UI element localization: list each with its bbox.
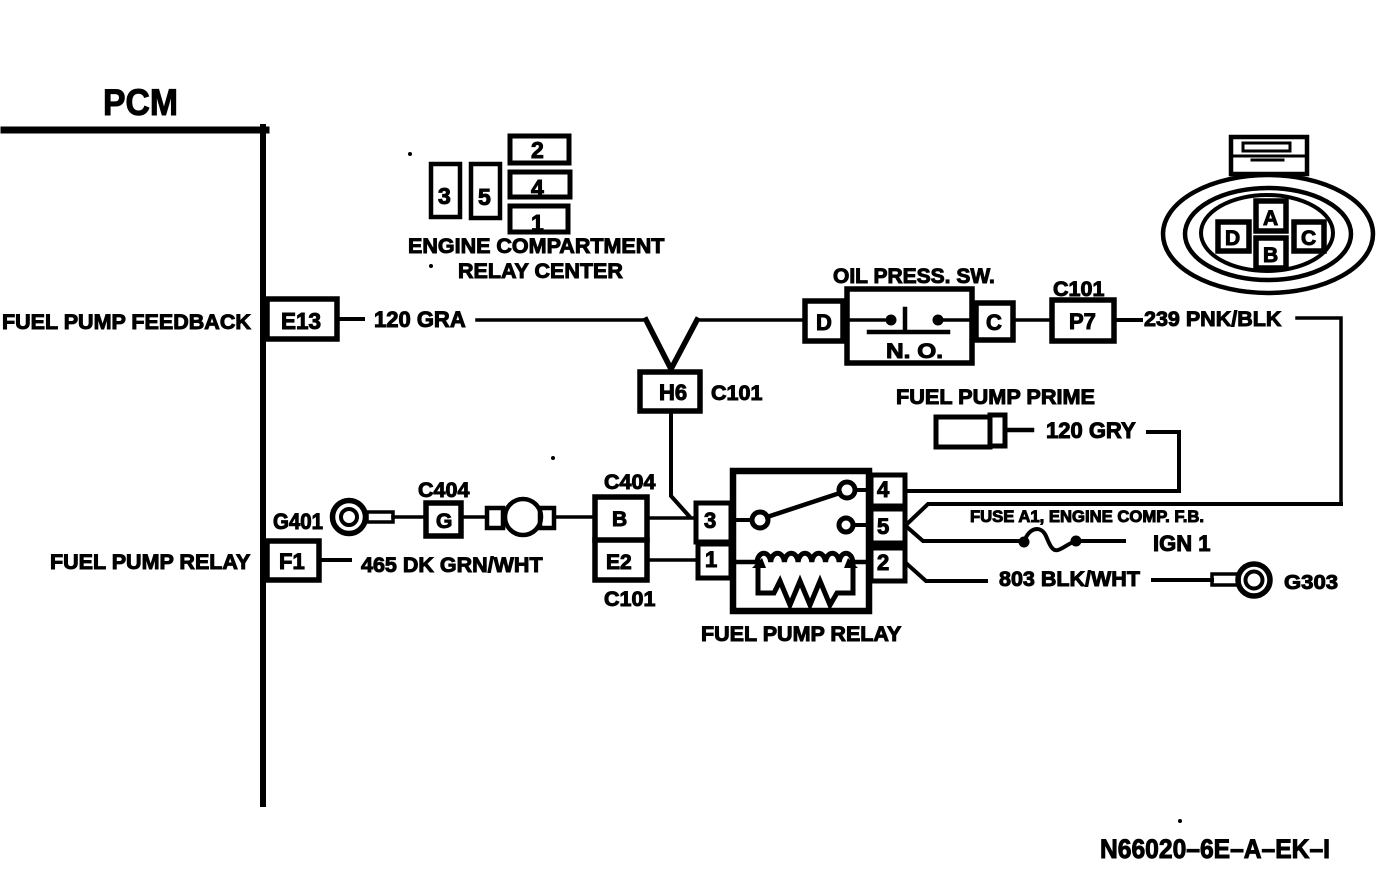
svg-text:5: 5 — [877, 514, 889, 539]
PCM top horizontal wire — [4, 127, 266, 134]
wire G401 to G — [393, 515, 426, 519]
svg-text:H6: H6 — [659, 380, 687, 405]
wire 239 PNK/BLK to pin 5 — [1297, 318, 1341, 504]
svg-text:3: 3 — [704, 508, 716, 533]
svg-text:1: 1 — [531, 210, 544, 236]
wire 120 GRA — [477, 318, 646, 322]
svg-text:FUEL PUMP RELAY: FUEL PUMP RELAY — [50, 550, 250, 574]
relay pin 5 — [871, 509, 905, 543]
scan speck — [408, 152, 412, 156]
wire B to pin 3 — [647, 516, 696, 520]
relay center fuse box 3 — [431, 164, 460, 217]
svg-text:C101: C101 — [711, 381, 762, 405]
svg-text:PCM: PCM — [103, 82, 178, 123]
wire stub P7 — [1117, 318, 1141, 322]
connector cavity B — [1256, 238, 1286, 268]
wire C to P7 — [1015, 318, 1052, 322]
svg-text:E13: E13 — [281, 308, 321, 334]
connector inner ellipse — [1201, 195, 1333, 271]
relay center fuse box 4 — [510, 172, 570, 197]
wire pin5 to fuse — [907, 527, 1018, 541]
svg-text:FUEL PUMP FEEDBACK: FUEL PUMP FEEDBACK — [2, 310, 251, 334]
svg-text:E2: E2 — [606, 551, 632, 574]
svg-text:465 DK GRN/WHT: 465 DK GRN/WHT — [361, 553, 543, 577]
connector outer ellipse — [1163, 175, 1373, 293]
connector cavity D — [1218, 222, 1249, 251]
relay switch — [733, 518, 752, 522]
svg-text:C: C — [986, 310, 1002, 335]
svg-text:803 BLK/WHT: 803 BLK/WHT — [999, 567, 1140, 591]
wire E2 to pin 1 — [647, 558, 698, 562]
svg-text:F1: F1 — [279, 549, 305, 574]
svg-text:P7: P7 — [1069, 309, 1096, 334]
svg-text:239 PNK/BLK: 239 PNK/BLK — [1144, 307, 1282, 331]
relay center fuse box 1 — [510, 206, 568, 232]
oil pressure switch box — [847, 289, 972, 363]
svg-text:B: B — [612, 508, 627, 531]
connector G — [426, 503, 461, 536]
svg-text:1: 1 — [705, 547, 717, 572]
svg-text:3: 3 — [438, 183, 451, 209]
svg-text:RELAY CENTER: RELAY CENTER — [458, 259, 623, 283]
wire to oil press switch — [697, 318, 805, 322]
svg-text:D: D — [1225, 227, 1240, 250]
wire stub E13 — [340, 317, 363, 321]
svg-text:G303: G303 — [1284, 571, 1338, 594]
wire splice V to H6 — [646, 320, 697, 369]
svg-text:IGN 1: IGN 1 — [1153, 531, 1210, 556]
connector H6 — [640, 372, 700, 411]
svg-text:4: 4 — [531, 175, 544, 201]
svg-text:C: C — [1301, 227, 1316, 250]
PCM vertical bus wire — [260, 127, 266, 804]
svg-text:120 GRY: 120 GRY — [1046, 418, 1136, 443]
fuel pump relay box — [733, 471, 869, 611]
connector cavity C — [1294, 222, 1324, 251]
svg-text:N. O.: N. O. — [886, 340, 943, 363]
svg-text:OIL PRESS. SW.: OIL PRESS. SW. — [833, 265, 995, 288]
ground G303 ring terminal — [1212, 574, 1239, 585]
connector tab — [1231, 137, 1307, 174]
relay pin 1 — [698, 544, 731, 578]
scan speck — [551, 456, 555, 460]
relay resistor — [758, 564, 853, 605]
wire stub F1 — [322, 558, 350, 562]
svg-text:2: 2 — [531, 137, 544, 163]
svg-text:FUEL PUMP RELAY: FUEL PUMP RELAY — [701, 622, 901, 646]
fuse symbol — [1019, 537, 1030, 548]
terminal C — [976, 303, 1013, 340]
svg-text:B: B — [1263, 244, 1278, 267]
relay pin 2 — [871, 548, 905, 581]
wire pin2 to ground — [907, 564, 986, 581]
switch contacts — [847, 318, 884, 322]
wire H6 down to pin 3 — [671, 412, 689, 516]
scan speck — [1178, 819, 1182, 823]
svg-text:G: G — [436, 510, 452, 533]
connector cavity A — [1256, 201, 1286, 231]
svg-text:C101: C101 — [604, 587, 655, 611]
svg-text:A: A — [1263, 207, 1278, 230]
scan speck — [429, 264, 433, 268]
wire inline connector to B — [556, 515, 595, 519]
svg-text:FUEL PUMP PRIME: FUEL PUMP PRIME — [896, 385, 1095, 409]
connector P7 — [1052, 300, 1114, 341]
svg-text:N66020–6E–A–EK–I: N66020–6E–A–EK–I — [1100, 834, 1330, 864]
terminal D — [805, 301, 843, 341]
relay center fuse box 5 — [471, 164, 500, 218]
svg-text:5: 5 — [478, 184, 491, 210]
svg-text:C404: C404 — [418, 478, 469, 502]
wire 120 GRY to pin 4 — [907, 432, 1179, 491]
terminal F1 — [267, 541, 319, 580]
relay pin 3 — [696, 503, 731, 542]
relay center fuse box 2 — [510, 136, 569, 163]
svg-text:ENGINE COMPARTMENT: ENGINE COMPARTMENT — [408, 234, 664, 258]
svg-text:G401: G401 — [273, 509, 323, 534]
fuel pump prime connector — [936, 417, 990, 447]
relay pin 4 — [871, 475, 905, 506]
wire stub prime — [1008, 428, 1032, 433]
svg-text:D: D — [816, 310, 832, 335]
svg-text:120 GRA: 120 GRA — [374, 307, 466, 332]
wire to G303 — [1153, 578, 1212, 582]
connector middle ellipse — [1185, 188, 1351, 280]
svg-text:C404: C404 — [604, 470, 655, 494]
wire G to inline connector — [461, 515, 487, 519]
wire pin5 to fuse feed — [907, 504, 1341, 524]
svg-text:FUSE A1, ENGINE COMP. F.B.: FUSE A1, ENGINE COMP. F.B. — [970, 507, 1204, 526]
svg-text:4: 4 — [877, 477, 890, 502]
svg-text:2: 2 — [877, 550, 889, 575]
connector B / E2 — [595, 497, 647, 580]
relay coil — [733, 560, 757, 565]
inline connector — [487, 508, 503, 528]
ground G401 ring terminal — [333, 501, 366, 534]
terminal E13 — [267, 299, 337, 339]
